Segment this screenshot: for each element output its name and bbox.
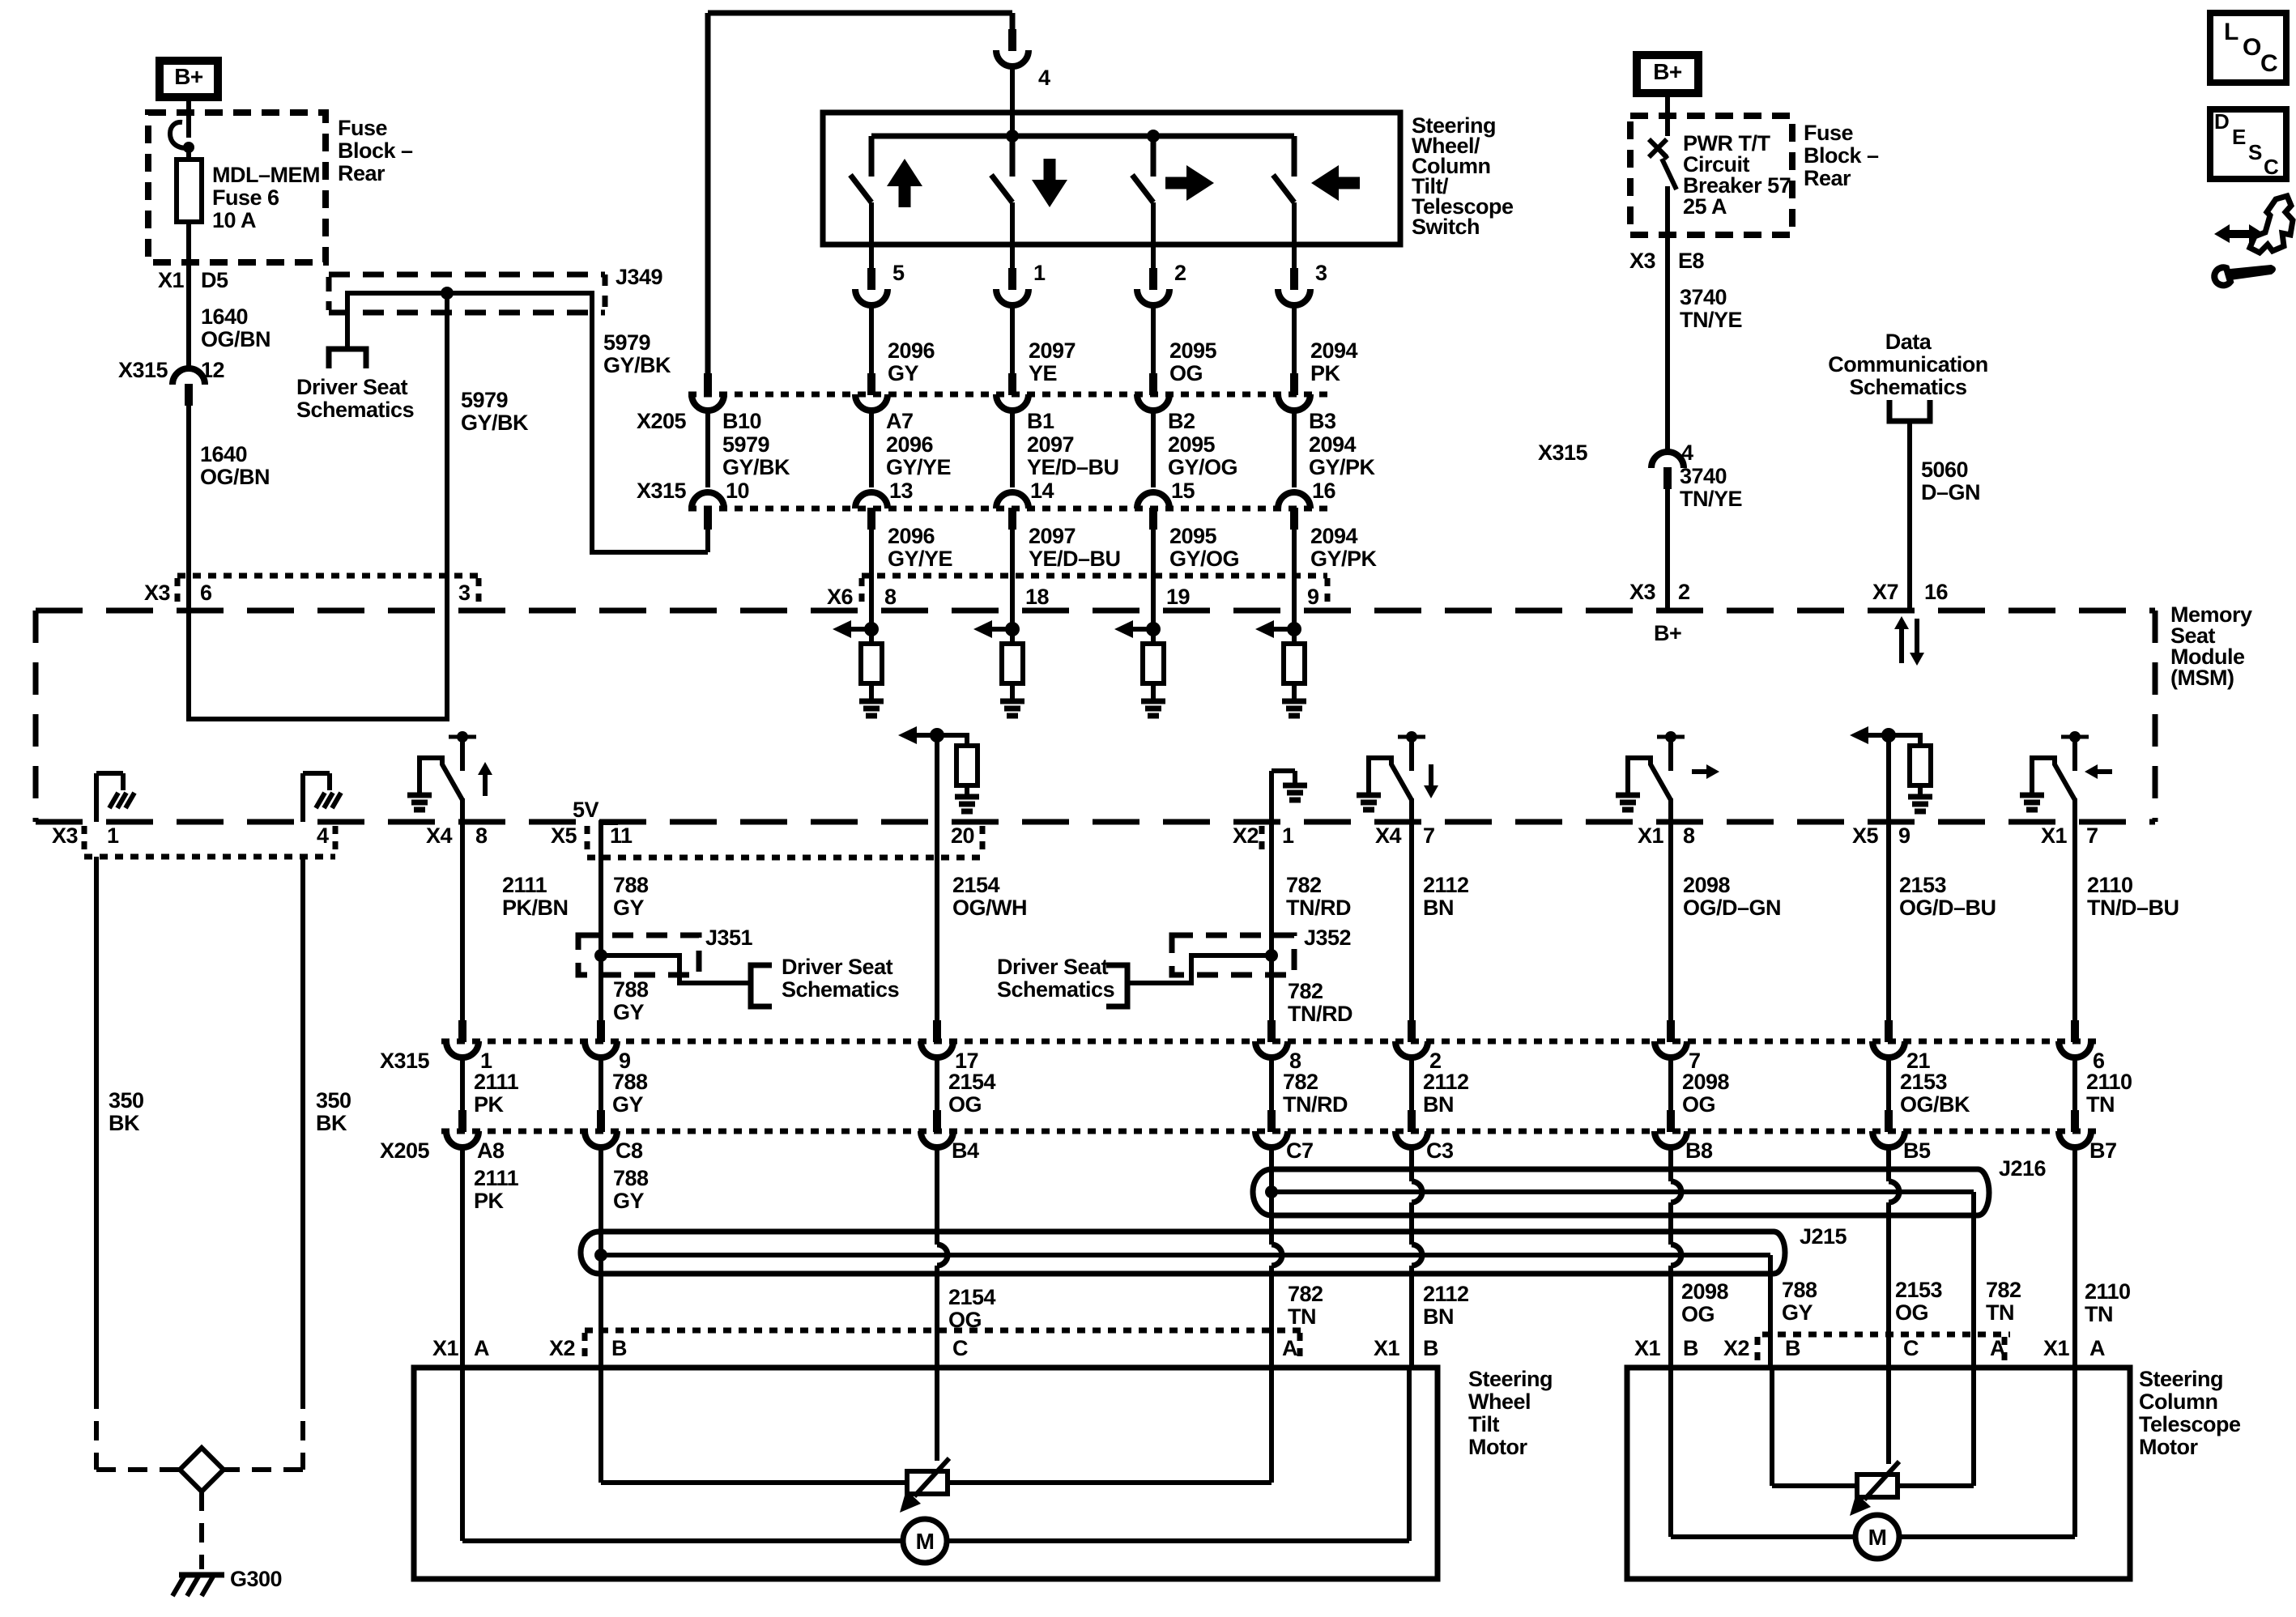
svg-text:X205: X205 [380,1138,430,1163]
svg-text:D–GN: D–GN [1921,480,1980,504]
svg-text:788: 788 [612,1070,648,1094]
svg-text:GY: GY [1782,1300,1813,1325]
svg-text:2111: 2111 [474,1070,519,1094]
svg-text:YE/D–BU: YE/D–BU [1027,455,1119,479]
svg-text:Schematics: Schematics [1849,375,1966,399]
svg-text:5: 5 [892,261,905,285]
svg-text:C: C [952,1336,968,1360]
svg-text:BK: BK [109,1111,140,1135]
svg-text:B5: B5 [1903,1138,1931,1163]
svg-text:X3: X3 [144,581,171,605]
svg-text:10 A: 10 A [212,208,256,232]
svg-text:3740: 3740 [1680,285,1727,309]
svg-text:X1: X1 [158,268,185,292]
svg-text:PK: PK [1310,361,1341,385]
svg-text:OG: OG [1682,1092,1715,1117]
svg-text:X315: X315 [380,1049,430,1073]
svg-text:2095: 2095 [1169,338,1217,363]
svg-text:PK: PK [474,1092,505,1117]
svg-text:Schematics: Schematics [997,977,1114,1002]
svg-text:7: 7 [1423,823,1435,848]
svg-text:3740: 3740 [1680,464,1727,488]
svg-text:GY: GY [613,896,645,920]
svg-text:7: 7 [2086,823,2098,848]
svg-text:X5: X5 [1852,823,1879,848]
svg-text:782: 782 [1986,1278,2021,1302]
svg-text:2111: 2111 [502,873,547,897]
svg-text:2094: 2094 [1310,338,1358,363]
svg-text:2112: 2112 [1423,1070,1469,1094]
svg-text:GY/PK: GY/PK [1310,547,1378,571]
svg-text:E8: E8 [1678,249,1705,273]
svg-text:2: 2 [1678,580,1690,604]
svg-text:8: 8 [884,585,897,609]
svg-text:GY: GY [888,361,919,385]
svg-text:TN/D–BU: TN/D–BU [2087,896,2179,920]
svg-text:BN: BN [1423,1092,1454,1117]
svg-text:OG/WH: OG/WH [952,896,1027,920]
svg-text:B+: B+ [1653,59,1682,84]
svg-text:Fuse 6: Fuse 6 [212,185,279,210]
svg-text:2098: 2098 [1683,873,1731,897]
svg-text:X1: X1 [2043,1336,2070,1360]
svg-text:B4: B4 [952,1138,979,1163]
svg-text:A: A [1990,1336,2005,1360]
svg-text:J352: J352 [1304,926,1351,950]
svg-text:Tilt: Tilt [1468,1412,1500,1436]
svg-text:Motor: Motor [1468,1435,1527,1459]
svg-text:X3: X3 [52,823,79,848]
svg-text:B: B [611,1336,627,1360]
svg-text:B: B [1423,1336,1438,1360]
svg-text:GY/OG: GY/OG [1169,547,1239,571]
svg-text:B+: B+ [1654,621,1681,645]
svg-text:J351: J351 [705,926,753,950]
svg-text:2098: 2098 [1682,1070,1730,1094]
svg-text:4: 4 [317,823,329,848]
svg-text:Steering: Steering [2139,1367,2223,1391]
svg-text:B2: B2 [1168,409,1195,433]
svg-text:4: 4 [1038,66,1050,90]
svg-text:C: C [2264,155,2279,179]
svg-text:2094: 2094 [1309,432,1357,457]
svg-text:2: 2 [1174,261,1186,285]
svg-text:Column: Column [2139,1389,2218,1414]
svg-text:16: 16 [1924,580,1949,604]
svg-text:782: 782 [1288,979,1323,1003]
svg-text:B8: B8 [1685,1138,1713,1163]
svg-text:X2: X2 [1233,823,1259,848]
svg-text:GY/YE: GY/YE [886,455,951,479]
svg-text:X7: X7 [1872,580,1898,604]
svg-text:TN: TN [1986,1300,2014,1325]
svg-text:5979: 5979 [603,330,651,355]
svg-text:X315: X315 [1538,440,1588,465]
svg-text:25 A: 25 A [1683,194,1727,219]
svg-text:BN: BN [1423,1304,1454,1329]
svg-text:X2: X2 [549,1336,575,1360]
svg-text:5060: 5060 [1921,457,1968,482]
svg-text:OG: OG [1169,361,1203,385]
svg-text:Rear: Rear [1804,166,1851,190]
svg-text:X5: X5 [551,823,577,848]
svg-text:S: S [2248,140,2262,164]
svg-text:X1: X1 [2041,823,2068,848]
svg-text:9: 9 [1307,585,1319,609]
svg-text:2111: 2111 [474,1166,519,1190]
svg-text:Driver Seat: Driver Seat [997,955,1109,979]
svg-text:C7: C7 [1286,1138,1314,1163]
svg-text:1: 1 [107,823,119,848]
svg-text:L: L [2224,19,2238,45]
svg-text:A7: A7 [886,409,914,433]
svg-text:TN: TN [1288,1304,1316,1329]
svg-text:2110: 2110 [2086,1070,2132,1094]
svg-text:D: D [2214,109,2229,134]
svg-text:1: 1 [1033,261,1046,285]
svg-text:14: 14 [1030,479,1054,503]
svg-text:GY/OG: GY/OG [1168,455,1237,479]
svg-text:350: 350 [109,1088,144,1113]
svg-text:TN/RD: TN/RD [1286,896,1351,920]
svg-text:1640: 1640 [201,304,248,329]
svg-text:782: 782 [1288,1282,1323,1306]
svg-text:TN/RD: TN/RD [1283,1092,1348,1117]
svg-text:J215: J215 [1800,1224,1847,1249]
svg-text:5V: 5V [573,798,599,822]
svg-text:J216: J216 [1999,1156,2047,1181]
svg-text:Driver Seat: Driver Seat [782,955,893,979]
svg-text:TN: TN [2085,1302,2113,1326]
svg-text:E: E [2232,125,2246,149]
svg-text:2096: 2096 [886,432,934,457]
svg-text:A: A [1282,1336,1297,1360]
svg-text:A8: A8 [477,1138,505,1163]
svg-text:788: 788 [613,873,649,897]
svg-text:Schematics: Schematics [296,398,414,422]
svg-text:G300: G300 [230,1567,282,1591]
svg-text:OG/D–GN: OG/D–GN [1683,896,1781,920]
svg-text:GY/BK: GY/BK [722,455,790,479]
svg-text:M: M [1868,1525,1887,1550]
svg-text:Block –: Block – [338,138,413,163]
svg-text:2112: 2112 [1423,1282,1469,1306]
svg-text:2110: 2110 [2085,1279,2131,1304]
svg-text:X3: X3 [1629,580,1656,604]
svg-text:2153: 2153 [1895,1278,1943,1302]
svg-text:PK/BN: PK/BN [502,896,569,920]
svg-text:B7: B7 [2089,1138,2117,1163]
svg-text:788: 788 [613,1166,649,1190]
svg-text:X2: X2 [1723,1336,1749,1360]
svg-text:8: 8 [1683,823,1695,848]
svg-text:3: 3 [458,581,471,605]
svg-text:B3: B3 [1309,409,1336,433]
svg-text:O: O [2243,34,2261,61]
svg-text:M: M [916,1529,935,1554]
svg-text:OG: OG [1895,1300,1928,1325]
svg-text:B: B [1785,1336,1800,1360]
svg-text:2098: 2098 [1681,1279,1729,1304]
svg-text:X4: X4 [426,823,453,848]
svg-text:BK: BK [316,1111,347,1135]
svg-text:2095: 2095 [1168,432,1216,457]
svg-text:PK: PK [474,1189,505,1213]
svg-text:OG/D–BU: OG/D–BU [1899,896,1996,920]
svg-text:X3: X3 [1629,249,1656,273]
svg-text:2154: 2154 [948,1070,996,1094]
svg-text:X205: X205 [637,409,687,433]
svg-text:2110: 2110 [2087,873,2133,897]
svg-text:X1: X1 [1634,1336,1661,1360]
svg-text:BN: BN [1423,896,1454,920]
svg-text:1640: 1640 [200,442,247,466]
svg-text:C3: C3 [1426,1138,1454,1163]
svg-text:Communication: Communication [1828,352,1988,377]
svg-text:X1: X1 [1638,823,1664,848]
svg-text:GY/YE: GY/YE [888,547,952,571]
svg-text:19: 19 [1166,585,1191,609]
svg-text:TN: TN [2086,1092,2115,1117]
svg-text:GY/BK: GY/BK [603,353,671,377]
svg-text:6: 6 [200,581,212,605]
svg-text:350: 350 [316,1088,351,1113]
svg-text:10: 10 [726,479,749,503]
svg-text:2154: 2154 [952,873,1000,897]
svg-text:1: 1 [1282,823,1294,848]
svg-text:GY/BK: GY/BK [461,411,529,435]
svg-text:J349: J349 [616,265,663,289]
svg-text:GY: GY [612,1092,644,1117]
svg-text:Switch: Switch [1412,215,1480,239]
svg-text:A: A [2089,1336,2105,1360]
svg-text:OG/BK: OG/BK [1900,1092,1970,1117]
svg-text:MDL–MEM: MDL–MEM [212,163,320,187]
svg-text:X1: X1 [1374,1336,1400,1360]
svg-text:2096: 2096 [888,338,935,363]
svg-text:A: A [474,1336,489,1360]
svg-text:15: 15 [1171,479,1195,503]
svg-text:2154: 2154 [948,1285,996,1309]
svg-text:Telescope: Telescope [2139,1412,2241,1436]
svg-text:18: 18 [1025,585,1050,609]
svg-text:X1: X1 [432,1336,459,1360]
svg-text:C: C [2260,50,2277,77]
svg-text:782: 782 [1283,1070,1318,1094]
svg-text:OG/BN: OG/BN [200,465,270,489]
svg-text:788: 788 [1782,1278,1817,1302]
svg-text:GY/PK: GY/PK [1309,455,1376,479]
svg-text:2153: 2153 [1899,873,1947,897]
svg-text:2097: 2097 [1027,432,1074,457]
svg-text:11: 11 [610,823,633,848]
svg-text:2097: 2097 [1029,524,1076,548]
svg-text:B1: B1 [1027,409,1054,433]
svg-text:788: 788 [613,977,649,1002]
svg-text:Fuse: Fuse [1804,121,1854,145]
svg-text:X315: X315 [637,479,687,503]
svg-text:X315: X315 [118,358,168,382]
svg-text:3: 3 [1315,261,1327,285]
svg-text:GY: GY [613,1189,645,1213]
svg-text:9: 9 [1898,823,1910,848]
svg-text:Motor: Motor [2139,1435,2198,1459]
svg-text:C: C [1903,1336,1919,1360]
svg-text:8: 8 [475,823,488,848]
svg-text:YE/D–BU: YE/D–BU [1029,547,1121,571]
svg-text:TN/YE: TN/YE [1680,487,1742,511]
svg-text:20: 20 [951,823,974,848]
svg-text:13: 13 [889,479,914,503]
svg-text:B10: B10 [722,409,761,433]
svg-text:B: B [1683,1336,1698,1360]
svg-text:782: 782 [1286,873,1322,897]
svg-text:X4: X4 [1375,823,1402,848]
svg-text:Driver Seat: Driver Seat [296,375,408,399]
svg-text:C8: C8 [616,1138,643,1163]
svg-text:OG: OG [948,1092,982,1117]
svg-text:OG/BN: OG/BN [201,327,270,351]
svg-text:D5: D5 [201,268,228,292]
svg-text:5979: 5979 [722,432,770,457]
svg-text:Data: Data [1885,330,1932,354]
svg-text:2094: 2094 [1310,524,1358,548]
svg-text:2095: 2095 [1169,524,1217,548]
svg-text:Block –: Block – [1804,143,1879,168]
svg-text:B+: B+ [174,64,203,89]
svg-text:2153: 2153 [1900,1070,1948,1094]
svg-text:YE: YE [1029,361,1057,385]
svg-text:OG: OG [1681,1302,1715,1326]
svg-text:Wheel: Wheel [1468,1389,1531,1414]
svg-text:2097: 2097 [1029,338,1076,363]
svg-text:(MSM): (MSM) [2170,666,2234,690]
svg-text:5979: 5979 [461,388,509,412]
svg-text:2112: 2112 [1423,873,1469,897]
svg-text:2096: 2096 [888,524,935,548]
svg-text:Schematics: Schematics [782,977,899,1002]
svg-text:Fuse: Fuse [338,116,388,140]
svg-text:Steering: Steering [1468,1367,1553,1391]
svg-text:GY: GY [613,1000,645,1024]
svg-text:TN/RD: TN/RD [1288,1002,1352,1026]
svg-text:Rear: Rear [338,161,386,185]
svg-text:16: 16 [1312,479,1336,503]
svg-text:X6: X6 [827,585,854,609]
svg-text:TN/YE: TN/YE [1680,308,1742,332]
